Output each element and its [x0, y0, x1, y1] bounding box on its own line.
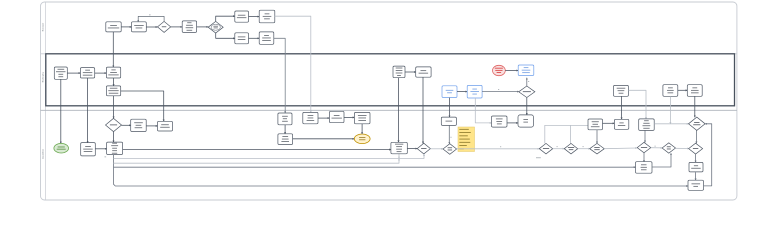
gateway OK to file? — [443, 144, 457, 155]
wire return sale to advise — [344, 116, 354, 118]
gateway final — [689, 143, 703, 154]
wire consider3 to confirm gw — [604, 147, 637, 150]
wire N right corner down — [628, 90, 646, 119]
task two conditions — [689, 162, 703, 172]
wire conditions down to return — [695, 172, 697, 180]
task request hearing — [391, 142, 407, 154]
long wire return spine — [114, 155, 689, 186]
task receive assign transfer — [131, 119, 147, 131]
wire J down to K — [113, 78, 115, 86]
wire debt rights down — [284, 125, 286, 134]
long wire TL to hearing box — [123, 149, 391, 151]
gateway sale held — [662, 143, 675, 153]
task POC effective check — [467, 85, 482, 98]
task advise turnover — [354, 112, 370, 123]
task C readmit review — [182, 21, 196, 33]
distribution wire to monitor stip — [545, 125, 588, 143]
wire multiple down to confirm gw — [644, 130, 646, 142]
task E trial retention — [259, 10, 275, 23]
wire A to B — [121, 26, 131, 28]
long wire return 3 — [114, 159, 400, 164]
wire consider1 to consider2 — [553, 148, 565, 150]
event BK filed — [54, 143, 69, 153]
label on ML wire — [450, 136, 451, 139]
label yes up — [528, 80, 529, 83]
wire confirm gw to sale gw — [651, 147, 662, 149]
wire F to G — [249, 37, 260, 39]
wire consider2 to consider3 — [578, 148, 590, 150]
wire stip to lift stay — [507, 122, 518, 124]
wire advise down to monitor — [361, 124, 363, 134]
wire hearing to agree gw — [407, 148, 417, 150]
event monitor BK case — [354, 134, 370, 144]
wire sell down to TL box — [113, 132, 115, 143]
wire P down to review gw — [694, 96, 696, 117]
task G forbearance withdrawn — [259, 32, 274, 44]
wire A down to J — [112, 32, 114, 67]
task monitor signed stip — [588, 119, 603, 130]
wire E right corner down — [275, 16, 311, 112]
loopback cure to B — [138, 16, 164, 21]
wire L to M — [405, 71, 416, 73]
wire sell to receive assign — [122, 124, 131, 126]
wire POC claim to POC check — [457, 91, 467, 93]
group box lane 2 — [46, 54, 735, 106]
task POC effective plan — [518, 65, 534, 76]
wire confirm gw down to closing — [643, 153, 645, 162]
task K schedule negotiation — [106, 86, 120, 96]
wire K down to decision sell — [113, 96, 115, 119]
wire sale gw to final gw — [676, 147, 689, 149]
wire K right corner down — [121, 91, 164, 121]
task M notice scheduling — [416, 67, 431, 77]
wire closing loop to sale gw — [652, 153, 671, 167]
wire C to gateway — [197, 26, 209, 28]
wire final gw down to conditions — [695, 154, 697, 162]
gateway consider 2 — [564, 143, 577, 154]
wire O to P — [678, 89, 688, 91]
wire ML final down to OK gw — [448, 125, 450, 143]
lane divider 1 — [41, 53, 737, 55]
decision cure? — [158, 21, 171, 32]
task L confirm records — [393, 66, 405, 78]
wire resale to return sale — [318, 117, 329, 119]
task revise plan final — [278, 134, 293, 145]
task review referral — [81, 143, 96, 156]
task O order resolve — [663, 85, 678, 97]
gateway received? — [519, 86, 535, 98]
yellow note — [458, 127, 475, 152]
wire G right corner down — [274, 38, 285, 113]
label no near spine — [105, 155, 107, 158]
stub hearing box to return 2 — [398, 154, 400, 159]
wire N down — [621, 96, 623, 119]
gateway routing inner ellipse — [211, 24, 220, 30]
wire POC event to POC plan — [505, 70, 518, 72]
wire received gw down to lift stay — [526, 98, 528, 115]
task A receive readmit — [106, 22, 121, 32]
task B forbearance — [132, 22, 147, 32]
wire monitor stip to plan complete — [603, 122, 615, 124]
gateway agree? — [417, 143, 430, 154]
label received — [498, 88, 499, 91]
wire monitor stip down — [596, 130, 598, 144]
task obtain resale — [303, 112, 318, 123]
wire review to TL box — [95, 148, 106, 150]
svg-text:Borrower: Borrower — [42, 22, 45, 31]
task P order transfer — [687, 85, 702, 97]
label c2 — [583, 145, 584, 148]
wire I to J — [95, 72, 107, 74]
wire receive assign to complete — [146, 125, 157, 127]
lane label column divider — [44, 2, 46, 200]
wire O down — [669, 96, 671, 124]
gateway routing needed — [208, 21, 223, 33]
task file POC claim — [442, 86, 457, 98]
label no — [149, 13, 151, 16]
gateway consider 1 — [539, 143, 552, 154]
task D referral trustee — [235, 11, 249, 22]
label after OK — [500, 145, 501, 148]
task H refile validation — [54, 67, 67, 79]
wire H down to green event — [60, 79, 62, 143]
gateway review timeline — [689, 117, 706, 130]
task return to desk — [688, 180, 704, 190]
wire cure to C — [171, 26, 183, 28]
label c1 — [557, 145, 558, 148]
wire B to decision cure — [146, 26, 157, 28]
wire POC claim down — [449, 98, 451, 118]
wire gateway down to F — [216, 33, 235, 38]
decision BK sell? — [106, 118, 122, 131]
wire return right up to review gw — [704, 124, 712, 186]
long wire return 4 — [114, 166, 636, 168]
wire received gw up to POC plan — [526, 78, 528, 86]
wire agree to OK gw — [430, 148, 443, 150]
wire review gw down to final gw — [695, 131, 697, 144]
lane divider 2 — [41, 109, 737, 111]
task TL transfers — [107, 142, 123, 155]
wire gateway up to D — [216, 16, 235, 21]
task N follow up tasks — [614, 85, 629, 96]
task J send trustee — [106, 67, 120, 78]
task prepare stip order — [492, 116, 508, 127]
wire M down — [422, 77, 424, 143]
wire OK gw to consider gw — [457, 148, 540, 150]
wire L down — [398, 78, 400, 143]
svg-text:Liquidation: Liquidation — [42, 148, 45, 159]
task return sale charge — [329, 111, 344, 122]
wire multiple right to review gw — [654, 123, 688, 125]
task ML final — [441, 117, 456, 125]
wire D to E — [249, 16, 260, 18]
task multiple options — [639, 119, 655, 130]
label confirm-sale — [655, 145, 656, 148]
gateway consider 3 — [590, 143, 605, 154]
gateway confirm purchase — [637, 142, 651, 153]
long wire return 2 — [114, 154, 425, 158]
task confirm closing — [636, 162, 653, 174]
event no POC received — [493, 65, 506, 75]
wire I down to review box — [87, 78, 89, 143]
label below line — [536, 156, 541, 159]
wire POC check down corner to Q — [475, 98, 491, 123]
task complete sale setup — [158, 121, 173, 131]
wire H to I — [67, 72, 80, 74]
task plan complete — [614, 119, 628, 129]
svg-text:Bankruptcy: Bankruptcy — [42, 71, 45, 82]
task F referral transfer — [235, 33, 249, 44]
wire revise to monitor BK — [293, 138, 355, 140]
wire POC check to received gw — [482, 91, 519, 93]
task obtain debt rights — [278, 113, 292, 125]
pool frame — [41, 2, 737, 200]
task I craft validation — [80, 68, 94, 78]
task lift stay — [518, 115, 534, 127]
